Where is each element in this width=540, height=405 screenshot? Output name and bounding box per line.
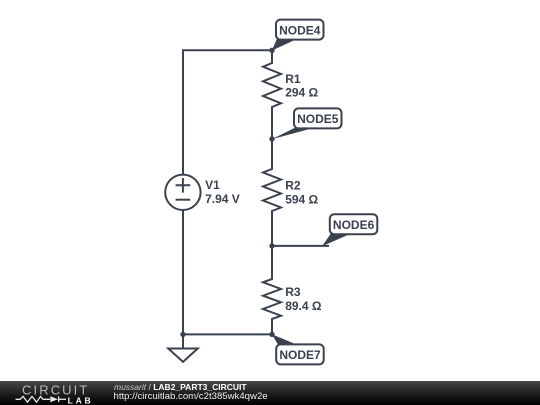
footer bar	[0, 381, 540, 405]
resistor R1	[263, 50, 281, 139]
svg-text:NODE7: NODE7	[279, 348, 321, 362]
svg-text:294 Ω: 294 Ω	[285, 86, 318, 100]
node NODE7 junction dot	[269, 332, 274, 337]
node NODE6 junction dot	[269, 243, 274, 248]
resistor R2	[263, 139, 281, 246]
label box NODE4	[276, 20, 324, 40]
svg-text:V1: V1	[205, 178, 220, 192]
node NODE5 junction dot	[269, 136, 274, 141]
pointer NODE4	[272, 39, 296, 51]
footer text line 1	[114, 383, 247, 392]
footer text line 2	[114, 392, 268, 402]
ground	[168, 334, 197, 362]
svg-text:LAB: LAB	[68, 395, 94, 405]
svg-text:R3: R3	[285, 285, 301, 299]
pointer NODE5	[272, 128, 312, 140]
svg-text:89.4 Ω: 89.4 Ω	[285, 299, 322, 313]
svg-text:NODE5: NODE5	[297, 112, 339, 126]
pointer NODE7	[272, 334, 297, 345]
svg-text:NODE4: NODE4	[279, 23, 321, 37]
ground junction dot	[180, 332, 185, 337]
wire top: left rail to NODE4	[183, 50, 272, 174]
label box NODE5	[294, 108, 342, 128]
logo CircuitLab	[0, 381, 100, 405]
wire bottom: ground junction to NODE7	[183, 333, 272, 335]
label box NODE6	[330, 214, 378, 234]
svg-text:7.94 V: 7.94 V	[205, 192, 240, 206]
node NODE4 junction dot	[269, 48, 274, 53]
pointer NODE6	[322, 233, 350, 246]
svg-text:NODE6: NODE6	[333, 218, 375, 232]
wire: NODE6 stub	[272, 245, 328, 247]
svg-text:R2: R2	[285, 179, 301, 193]
resistor R3	[263, 246, 281, 335]
wire: V1 bottom to ground junction	[182, 210, 184, 334]
svg-text:594 Ω: 594 Ω	[285, 192, 318, 206]
voltage source V1	[165, 175, 200, 210]
label box NODE7	[276, 344, 324, 364]
svg-text:R1: R1	[285, 72, 301, 86]
